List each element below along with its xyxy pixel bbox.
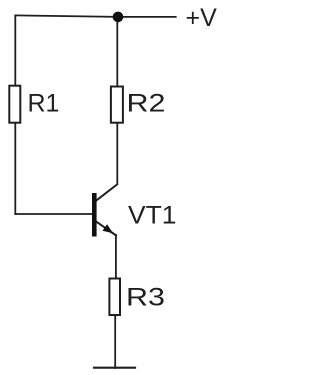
svg-text:R1: R1 (28, 90, 60, 118)
svg-text:R2: R2 (127, 90, 166, 118)
svg-text:R3: R3 (126, 283, 165, 311)
svg-text:+V: +V (186, 4, 218, 32)
svg-text:VT1: VT1 (128, 202, 177, 230)
